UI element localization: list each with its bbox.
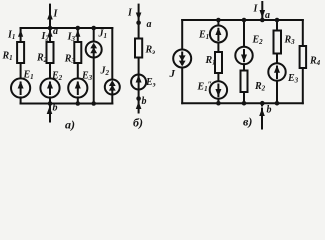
svg-text:б): б) <box>133 116 143 130</box>
svg-text:J2: J2 <box>100 66 110 78</box>
svg-text:R3: R3 <box>284 35 296 47</box>
svg-text:E2: E2 <box>252 35 264 47</box>
svg-text:a: a <box>147 19 152 30</box>
svg-text:Eэ: Eэ <box>145 77 156 89</box>
svg-text:b: b <box>267 105 272 116</box>
svg-text:I: I <box>127 8 133 19</box>
svg-text:a: a <box>265 10 270 21</box>
svg-text:a: a <box>53 26 58 37</box>
svg-text:а): а) <box>65 118 75 132</box>
svg-text:R1: R1 <box>205 55 216 67</box>
svg-text:R2: R2 <box>254 81 266 93</box>
svg-text:I2: I2 <box>41 31 50 43</box>
svg-text:I3: I3 <box>67 32 76 44</box>
svg-text:E3: E3 <box>81 71 93 83</box>
svg-text:I: I <box>53 9 59 20</box>
svg-text:b: b <box>53 103 58 114</box>
svg-text:E3: E3 <box>287 73 299 85</box>
svg-text:E1: E1 <box>23 70 34 82</box>
svg-text:R1: R1 <box>2 51 13 63</box>
svg-text:Rэ: Rэ <box>145 45 156 57</box>
svg-text:J1: J1 <box>98 29 108 41</box>
svg-text:в): в) <box>243 115 252 129</box>
svg-text:E2: E2 <box>51 71 63 83</box>
svg-text:E1′: E1′ <box>198 28 211 41</box>
svg-text:I1: I1 <box>7 30 15 42</box>
svg-text:b: b <box>142 96 147 107</box>
svg-text:R4: R4 <box>309 56 321 68</box>
svg-text:J: J <box>169 68 176 80</box>
svg-text:I: I <box>253 4 259 15</box>
